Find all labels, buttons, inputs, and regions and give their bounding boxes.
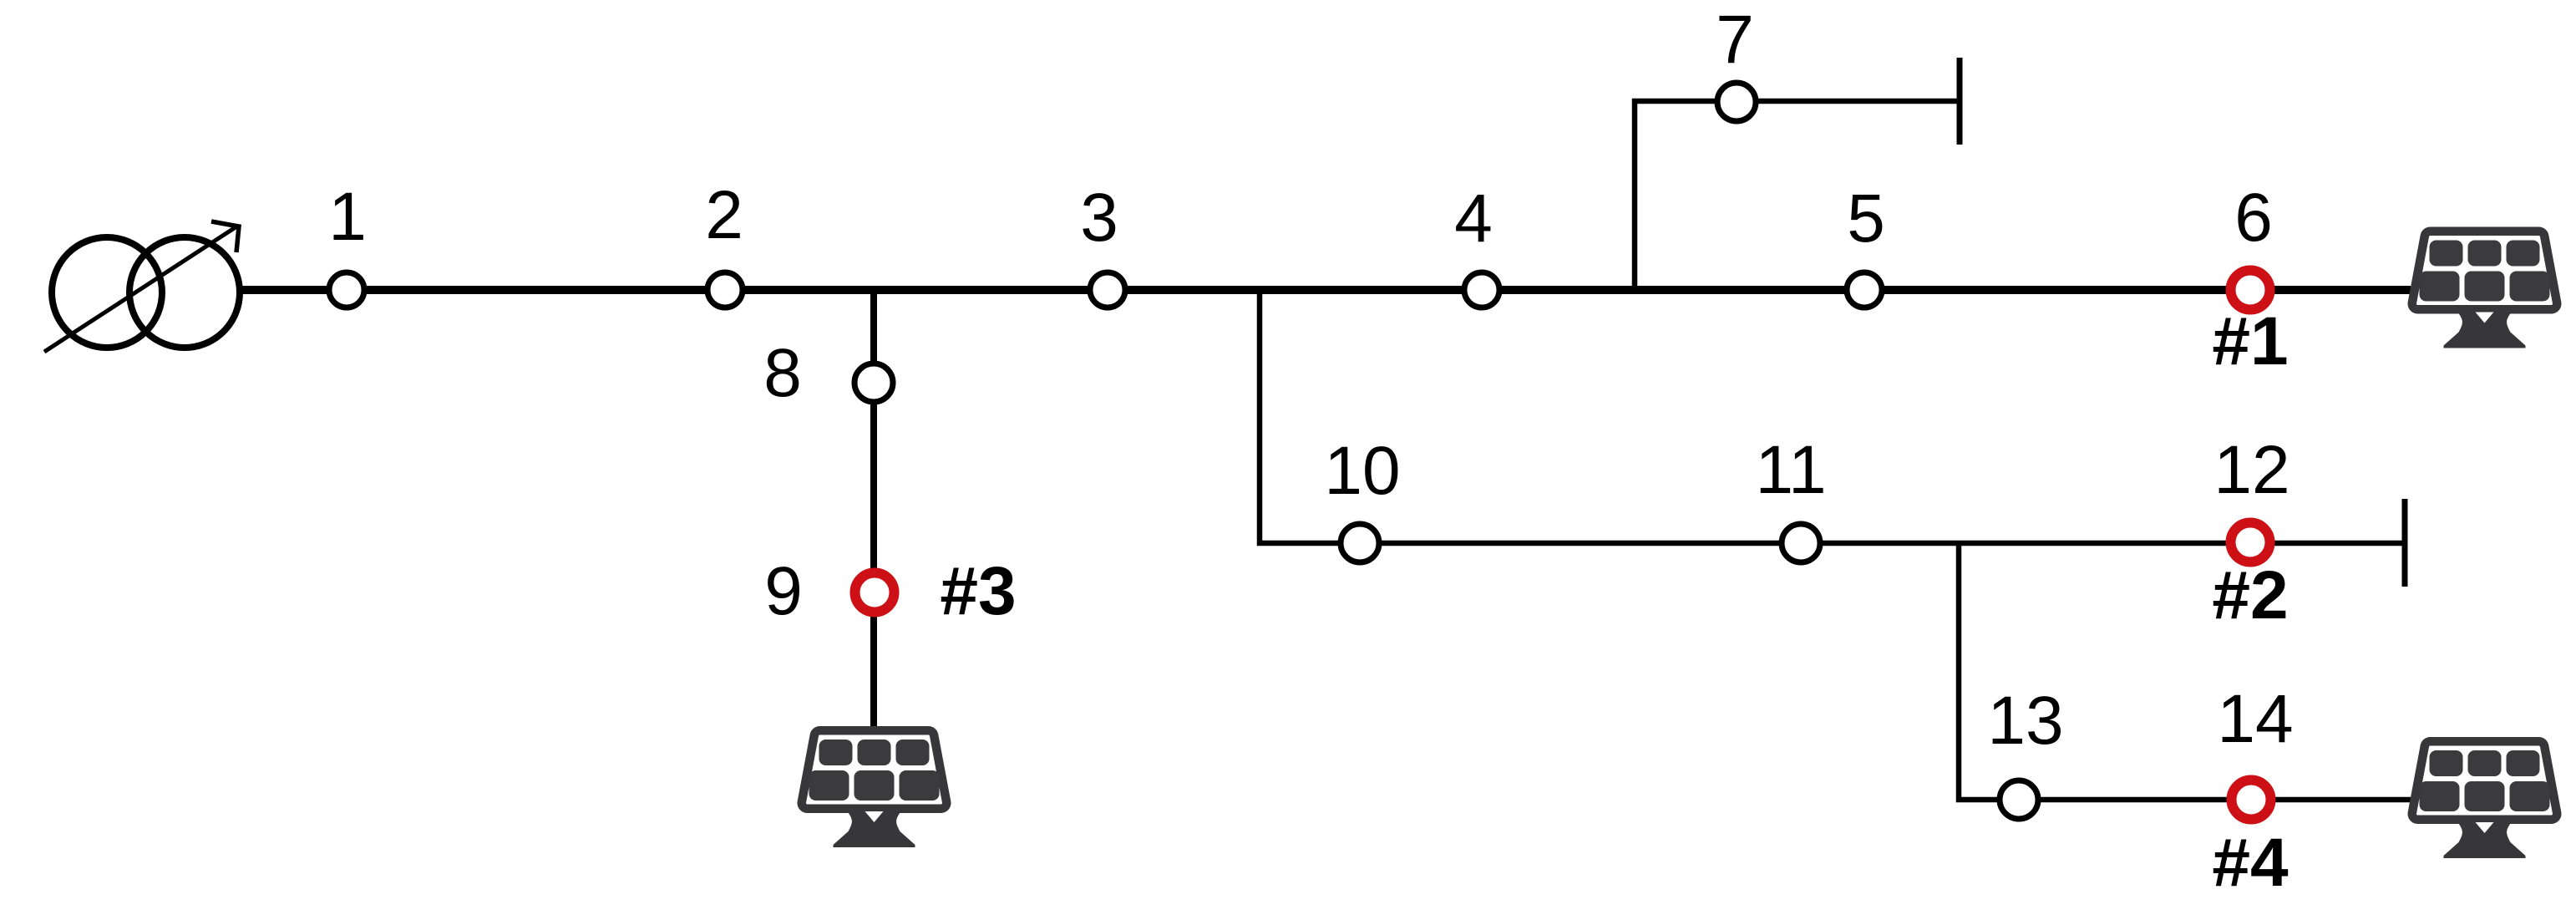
svg-text:13: 13 xyxy=(1987,683,2063,759)
svg-text:5: 5 xyxy=(1847,180,1885,257)
svg-text:#1: #1 xyxy=(2212,303,2288,379)
svg-text:#3: #3 xyxy=(940,553,1016,629)
svg-text:10: 10 xyxy=(1324,433,1400,509)
node 9 (red, measurement point #3) xyxy=(855,573,895,612)
load terminal bar (end of node 12 lateral) xyxy=(2402,499,2408,587)
node 12 (red, measurement point #2) xyxy=(2231,523,2270,562)
wire: branch from main bus up through node 7 to load terminal xyxy=(1635,101,1960,290)
svg-text:12: 12 xyxy=(2213,432,2289,508)
svg-text:6: 6 xyxy=(2234,180,2273,256)
transformer tap-changer arrow xyxy=(44,221,239,352)
PV generator at node 14 xyxy=(2418,747,2552,858)
node 2 xyxy=(707,272,743,308)
svg-text:7: 7 xyxy=(1716,2,1754,78)
svg-text:8: 8 xyxy=(763,335,802,411)
svg-text:2: 2 xyxy=(705,177,743,253)
transformer T1 (grid supply, two overlapping circles) xyxy=(52,237,240,348)
node 6 (red, measurement point #1) xyxy=(2231,271,2270,310)
svg-text:1: 1 xyxy=(328,179,367,255)
wire: branch from main bus down to lateral 10-11-12 xyxy=(1260,290,2405,543)
node 4 xyxy=(1464,272,1499,308)
node 7 xyxy=(1717,83,1756,121)
node 13 xyxy=(2000,780,2038,819)
svg-text:14: 14 xyxy=(2217,681,2293,757)
node 10 xyxy=(1341,524,1379,562)
svg-text:9: 9 xyxy=(764,553,803,629)
node 1 xyxy=(329,272,364,308)
node 5 xyxy=(1847,272,1882,308)
svg-text:3: 3 xyxy=(1080,180,1118,256)
wire: branch from bus 2/3 tee down through nodes 8,9 to PV #3 xyxy=(870,290,877,726)
PV generator at node 6 xyxy=(2418,237,2552,348)
svg-text:#4: #4 xyxy=(2212,825,2289,901)
load terminal bar (end of node 7 branch) xyxy=(1957,58,1963,145)
node 14 (red, measurement point #4) xyxy=(2232,780,2271,820)
wire: main feeder bus from transformer to PV #1 xyxy=(241,286,2411,294)
node 8 xyxy=(854,363,893,402)
svg-text:4: 4 xyxy=(1454,180,1493,257)
svg-text:#2: #2 xyxy=(2212,557,2288,633)
PV generator at node 9 xyxy=(808,736,941,847)
svg-text:11: 11 xyxy=(1755,432,1826,508)
node 3 xyxy=(1090,272,1125,308)
node 11 xyxy=(1782,524,1820,562)
wire: branch from lateral down to nodes 13,14 and PV #4 xyxy=(1959,543,2411,800)
